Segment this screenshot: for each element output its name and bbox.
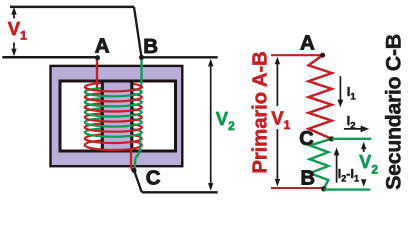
- winding primary A-C zigzag: [309, 55, 332, 139]
- wire red tick top to A: [271, 54, 323, 56]
- winding green lead to C: [135, 134, 141, 169]
- core window left: [60, 81, 103, 151]
- wire slant from C: [134, 170, 142, 192]
- svg-text:C: C: [299, 128, 313, 150]
- node A: [95, 55, 100, 60]
- wire red tick bottom to B: [271, 187, 324, 189]
- svg-text:Secundario C-B: Secundario C-B: [381, 34, 405, 190]
- current I2 arrow: [344, 126, 369, 133]
- dimension V1 left vertical with arrows: [11, 7, 16, 56]
- dimension V1 right black with arrows: [275, 57, 280, 187]
- svg-text:C: C: [146, 166, 161, 189]
- svg-text:A: A: [300, 32, 315, 55]
- winding red lead to C: [131, 149, 134, 171]
- current I2-I1 arrow: [334, 148, 340, 183]
- winding coil back ellipses: [85, 83, 142, 150]
- node B right: [321, 186, 326, 191]
- winding secondary C-B zigzag: [310, 139, 332, 189]
- node B: [139, 55, 144, 60]
- current I1 arrow: [338, 76, 344, 107]
- svg-text:B: B: [301, 168, 315, 190]
- wire top line: [10, 6, 134, 9]
- wire from B to V2 dimension: [142, 56, 218, 58]
- winding green lead from B: [139, 57, 142, 90]
- node A right: [320, 53, 325, 58]
- wire slant to B: [134, 7, 142, 57]
- dimension V2 right black with arrows: [361, 142, 366, 187]
- svg-text:Primario A-B: Primario A-B: [249, 51, 272, 173]
- wire bottom line: [142, 191, 218, 193]
- wire lower-left line to A: [2, 56, 97, 59]
- node C: [131, 168, 136, 173]
- svg-text:B: B: [143, 35, 158, 58]
- node C right: [329, 136, 334, 141]
- wire C to right green: [332, 138, 372, 140]
- core limb cover: [104, 80, 131, 151]
- core: [51, 66, 183, 166]
- core window right: [132, 81, 176, 151]
- dimension V2 left with arrows: [208, 59, 213, 191]
- wire B to right green: [324, 188, 371, 190]
- svg-text:A: A: [95, 34, 110, 57]
- winding red lead from A: [96, 57, 98, 89]
- winding coil front arcs: [85, 87, 142, 150]
